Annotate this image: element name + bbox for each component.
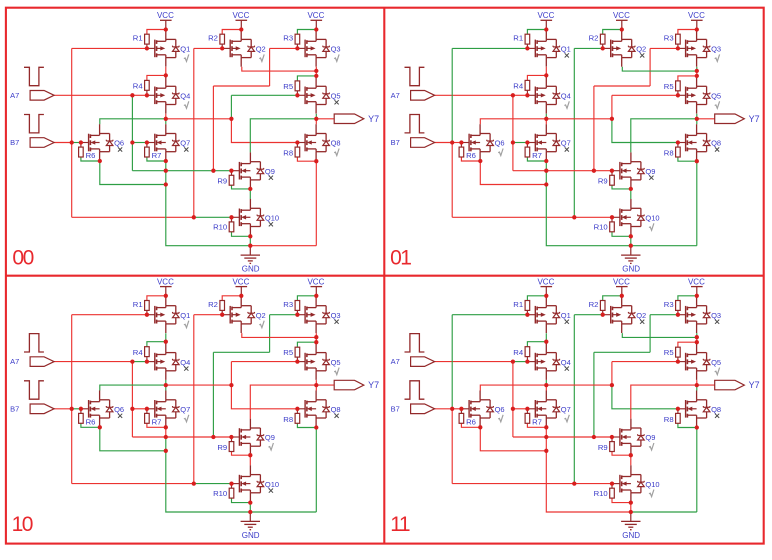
svg-text:00: 00 [12, 247, 33, 270]
svg-text:VCC: VCC [688, 11, 705, 20]
svg-text:R6: R6 [86, 417, 96, 426]
svg-text:R1: R1 [133, 300, 143, 309]
svg-text:R2: R2 [208, 34, 218, 43]
svg-text:Q3: Q3 [331, 45, 341, 54]
svg-text:R3: R3 [664, 300, 674, 309]
svg-text:B7: B7 [10, 404, 19, 413]
svg-text:VCC: VCC [307, 11, 324, 20]
svg-text:Q2: Q2 [636, 311, 646, 320]
svg-text:Q1: Q1 [180, 45, 190, 54]
svg-text:Q7: Q7 [180, 139, 190, 148]
svg-text:GND: GND [622, 265, 640, 274]
svg-text:R2: R2 [589, 34, 599, 43]
svg-text:Q8: Q8 [711, 139, 721, 148]
svg-text:R1: R1 [513, 34, 523, 43]
svg-text:R5: R5 [664, 82, 674, 91]
svg-text:VCC: VCC [232, 11, 249, 20]
svg-text:Q10: Q10 [265, 480, 279, 489]
svg-text:R7: R7 [152, 417, 162, 426]
svg-text:10: 10 [12, 513, 33, 536]
svg-text:R5: R5 [283, 348, 293, 357]
svg-text:Q4: Q4 [561, 358, 571, 367]
svg-text:Q8: Q8 [331, 139, 341, 148]
svg-text:11: 11 [390, 513, 410, 536]
svg-text:Q10: Q10 [645, 480, 659, 489]
svg-text:R8: R8 [664, 149, 674, 158]
svg-text:R10: R10 [213, 489, 227, 498]
svg-text:B7: B7 [391, 138, 400, 147]
svg-text:R7: R7 [532, 151, 542, 160]
svg-text:VCC: VCC [157, 11, 174, 20]
svg-text:Y7: Y7 [749, 114, 760, 124]
svg-text:R4: R4 [133, 348, 144, 357]
svg-text:Q9: Q9 [645, 167, 655, 176]
svg-text:R2: R2 [589, 300, 599, 309]
svg-text:Q9: Q9 [265, 167, 275, 176]
svg-text:VCC: VCC [537, 11, 554, 20]
svg-text:B7: B7 [391, 404, 400, 413]
svg-text:A7: A7 [391, 357, 400, 366]
svg-text:R4: R4 [513, 82, 524, 91]
svg-text:Q4: Q4 [180, 358, 190, 367]
svg-text:Q10: Q10 [645, 214, 659, 223]
svg-text:VCC: VCC [537, 277, 554, 286]
svg-text:R6: R6 [466, 417, 476, 426]
svg-text:Q9: Q9 [645, 433, 655, 442]
svg-text:Q10: Q10 [265, 214, 279, 223]
svg-text:Q2: Q2 [256, 311, 266, 320]
svg-text:Y7: Y7 [368, 114, 379, 124]
svg-text:Q2: Q2 [636, 45, 646, 54]
svg-text:Q6: Q6 [495, 139, 505, 148]
svg-text:Q7: Q7 [561, 405, 571, 414]
svg-text:R10: R10 [594, 223, 608, 232]
svg-text:Q6: Q6 [495, 405, 505, 414]
svg-text:R10: R10 [594, 489, 608, 498]
svg-text:VCC: VCC [157, 277, 174, 286]
svg-text:R6: R6 [86, 151, 96, 160]
svg-text:R3: R3 [664, 34, 674, 43]
svg-text:Q5: Q5 [711, 358, 721, 367]
svg-text:R8: R8 [283, 149, 293, 158]
svg-text:R9: R9 [598, 443, 608, 452]
svg-text:B7: B7 [10, 138, 19, 147]
svg-text:R8: R8 [664, 415, 674, 424]
svg-text:Q5: Q5 [711, 92, 721, 101]
svg-text:R6: R6 [466, 151, 476, 160]
svg-text:R5: R5 [664, 348, 674, 357]
svg-text:Q1: Q1 [180, 311, 190, 320]
svg-text:Q3: Q3 [711, 45, 721, 54]
svg-text:Y7: Y7 [368, 380, 379, 390]
svg-text:R8: R8 [283, 415, 293, 424]
svg-text:Q6: Q6 [114, 139, 124, 148]
svg-text:Q1: Q1 [561, 45, 571, 54]
svg-text:Q2: Q2 [256, 45, 266, 54]
svg-text:GND: GND [242, 531, 260, 540]
svg-text:VCC: VCC [613, 11, 630, 20]
svg-text:R1: R1 [133, 34, 143, 43]
svg-text:GND: GND [242, 265, 260, 274]
svg-text:R3: R3 [283, 34, 293, 43]
svg-text:A7: A7 [10, 357, 19, 366]
svg-text:Q5: Q5 [331, 92, 341, 101]
svg-text:R4: R4 [133, 82, 144, 91]
svg-text:R9: R9 [217, 443, 227, 452]
svg-text:R9: R9 [217, 177, 227, 186]
svg-text:A7: A7 [391, 91, 400, 100]
svg-text:Q6: Q6 [114, 405, 124, 414]
svg-text:Y7: Y7 [749, 380, 760, 390]
svg-text:R10: R10 [213, 223, 227, 232]
svg-text:Q3: Q3 [711, 311, 721, 320]
svg-text:A7: A7 [10, 91, 19, 100]
svg-text:Q7: Q7 [561, 139, 571, 148]
svg-text:R4: R4 [513, 348, 524, 357]
svg-text:R7: R7 [152, 151, 162, 160]
svg-text:Q8: Q8 [331, 405, 341, 414]
svg-text:R3: R3 [283, 300, 293, 309]
svg-text:VCC: VCC [232, 277, 249, 286]
svg-text:Q4: Q4 [561, 92, 571, 101]
svg-text:R5: R5 [283, 82, 293, 91]
svg-text:Q4: Q4 [180, 92, 190, 101]
svg-text:R2: R2 [208, 300, 218, 309]
svg-text:01: 01 [390, 247, 411, 270]
svg-text:Q8: Q8 [711, 405, 721, 414]
svg-text:VCC: VCC [613, 277, 630, 286]
svg-text:R9: R9 [598, 177, 608, 186]
svg-text:R1: R1 [513, 300, 523, 309]
svg-text:R7: R7 [532, 417, 542, 426]
svg-text:Q1: Q1 [561, 311, 571, 320]
svg-text:GND: GND [622, 531, 640, 540]
svg-text:VCC: VCC [307, 277, 324, 286]
svg-text:VCC: VCC [688, 277, 705, 286]
svg-text:Q9: Q9 [265, 433, 275, 442]
svg-text:Q5: Q5 [331, 358, 341, 367]
svg-text:Q3: Q3 [331, 311, 341, 320]
svg-text:Q7: Q7 [180, 405, 190, 414]
